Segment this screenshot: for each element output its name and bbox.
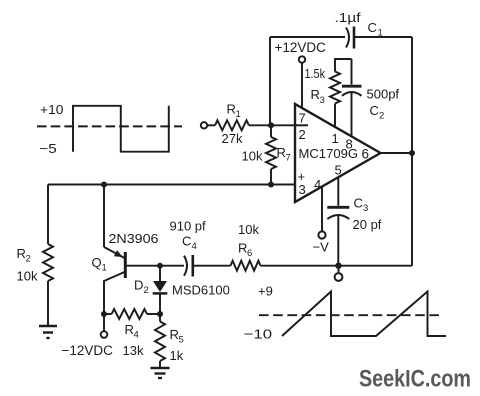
emitter line [104,247,125,258]
output terminal [335,273,343,281]
wire to output terminal [338,266,340,273]
svg-text:.1µf: .1µf [335,11,362,25]
wire pin1 up [334,104,336,128]
wire D2 node to C4 [160,265,184,267]
svg-text:SeekIC.com: SeekIC.com [359,366,471,393]
svg-text:1.5k: 1.5k [305,67,326,81]
label D2 [134,278,149,297]
wire top feedback rail right segment [354,36,412,38]
label R4 [125,322,139,341]
svg-text:4: 4 [192,241,197,252]
label R3 [311,87,325,106]
svg-text:2: 2 [26,254,31,265]
svg-text:R: R [125,322,134,337]
svg-text:R: R [277,145,286,160]
svg-text:+9: +9 [258,284,273,299]
capacitor C4 [184,255,193,277]
resistor R1 [215,120,249,130]
resistor R4 [104,309,160,319]
label R7 [277,145,291,164]
label Q1 [92,255,107,274]
input square wave trace [73,106,169,152]
wire left down to R2 [47,185,49,245]
node base/D2/C4 [157,263,163,269]
svg-text:1k: 1k [170,348,184,363]
input terminal [201,122,207,128]
label C4 [182,234,197,253]
node D2/R4/R5 [157,311,163,317]
svg-text:4: 4 [134,330,139,341]
terminal -V [318,231,325,238]
svg-text:6: 6 [362,146,370,161]
wire +12VDC to pin7 [301,63,303,109]
svg-text:5: 5 [335,163,342,178]
svg-text:2: 2 [379,111,384,122]
svg-text:3: 3 [299,182,306,197]
svg-text:8: 8 [346,137,353,152]
label R5 [170,327,184,346]
wire base to D2 node [126,265,160,267]
op-amp U1 MC1709G [295,104,381,202]
wire emitter vertical [103,185,105,248]
svg-text:−5: −5 [39,141,57,156]
diode D2 [153,266,168,314]
label R1 [227,102,241,121]
svg-text:C: C [182,234,191,249]
svg-text:R: R [17,246,26,261]
wire input stub [208,124,216,126]
svg-text:R: R [170,327,179,342]
wire R3 top to bracket [335,59,352,72]
label R2 [17,246,31,265]
node collector/R4/-12VDC [101,311,107,317]
svg-text:910 pf: 910 pf [170,219,207,234]
label R6 [238,241,252,260]
wire pin4 down [321,187,323,232]
svg-text:MSD6100: MSD6100 [172,283,230,298]
svg-text:5: 5 [179,335,184,346]
input square wave dashed baseline [37,125,182,127]
wire C3 to bottom node [337,215,339,265]
svg-text:2N3906: 2N3906 [109,231,159,246]
svg-text:3: 3 [320,95,325,106]
svg-text:−12VDC: −12VDC [62,343,114,358]
svg-text:3: 3 [363,203,368,214]
label C3 [354,196,369,215]
svg-text:2: 2 [144,285,149,296]
transistor Q1 [104,185,125,315]
svg-text:2: 2 [299,127,306,142]
wire output [381,152,413,154]
svg-text:−10: −10 [244,327,273,342]
svg-text:D: D [134,278,143,293]
pin2 stub inside op-amp [295,124,308,126]
node inverting input [268,122,274,128]
ground (R5) [151,368,170,378]
svg-text:10k: 10k [238,222,259,237]
svg-text:1: 1 [332,131,339,146]
label C2 [370,103,385,122]
svg-text:27k: 27k [222,131,243,146]
wire to -12VDC terminal [103,317,105,331]
svg-text:+12VDC: +12VDC [275,40,327,55]
svg-text:6: 6 [247,248,252,259]
svg-text:C: C [370,103,379,118]
svg-text:1: 1 [236,109,241,120]
wire top feedback rail left segment [270,36,345,38]
wire C4 to R6 [193,265,231,267]
svg-text:7: 7 [299,111,306,126]
svg-text:10k: 10k [242,149,263,164]
emitter arrow [114,250,123,257]
capacitor C1 [346,27,354,49]
wire pin5 down [337,177,339,205]
node emitter branch [101,182,107,188]
svg-text:R: R [238,241,247,256]
wire non-inverting rail [48,184,295,186]
svg-text:13k: 13k [123,343,144,358]
ground (R2) [39,326,57,338]
svg-text:Q: Q [92,255,102,270]
wire bracket to C2 [351,59,353,85]
label C1 [368,20,383,39]
terminal -12VDC [101,331,108,338]
svg-text:R: R [311,87,320,102]
node output [409,150,415,156]
svg-text:4: 4 [314,177,321,192]
svg-text:C: C [368,20,377,35]
svg-text:7: 7 [286,153,291,164]
svg-text:−V: −V [313,240,330,255]
base bar [124,252,127,278]
node C3 junction [335,263,341,269]
svg-text:+10: +10 [40,102,64,117]
svg-text:20 pf: 20 pf [353,217,382,232]
svg-text:C: C [354,196,363,211]
wire left feedback vertical [269,37,271,125]
capacitor C3 [327,207,349,219]
wire C2 to pin8 [351,92,353,137]
wire R1 to inverting input node [249,124,295,126]
wire right vertical output to bottom [411,37,413,266]
output sawtooth trace [282,292,446,337]
svg-text:1: 1 [102,263,107,274]
resistor R2 [43,244,53,281]
capacitor C2 [342,86,362,96]
svg-text:500pf: 500pf [367,87,400,102]
svg-text:10k: 10k [17,269,38,284]
collector line [104,272,125,314]
resistor R3 [330,71,340,103]
svg-text:R: R [227,102,236,117]
wire R2 to ground [47,281,49,325]
resistor R6 [231,261,261,271]
output waveform dashed baseline [259,314,440,316]
node R7 bottom [268,182,274,188]
resistor R5 [155,314,165,367]
wire bottom feedback horizontal [261,265,413,267]
resistor R7 [266,128,276,184]
terminal +12VDC [299,56,305,62]
